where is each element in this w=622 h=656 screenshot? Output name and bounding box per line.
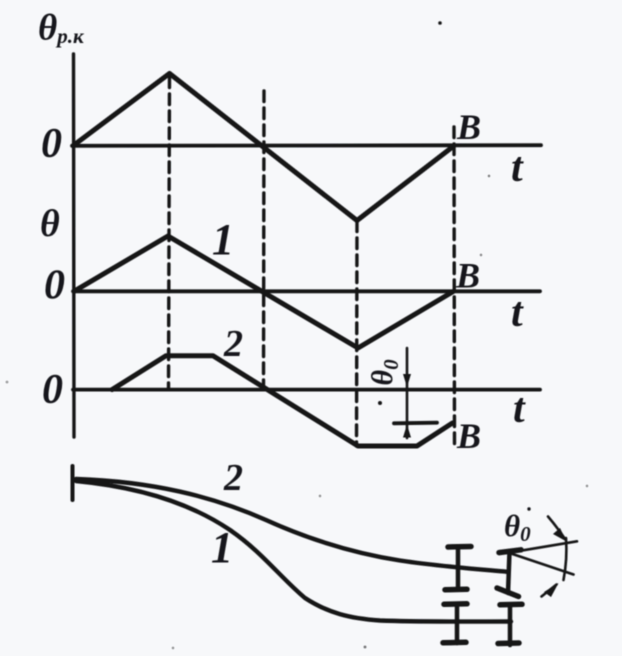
speck near plot1 t (488, 175, 490, 177)
svg-text:1: 1 (211, 523, 233, 572)
backlash fan line L2 (511, 554, 574, 575)
lower gear I-beam 2 top cap (500, 602, 522, 608)
bottom arrow tail (542, 585, 557, 597)
bottom curve 1 (lower) (76, 481, 511, 622)
svg-text:t: t (511, 290, 524, 336)
lower gear I-beam 2 bottom cap (498, 640, 519, 646)
backlash fan line L1 (511, 541, 577, 552)
lower gear I-beam 2 vertical (508, 605, 513, 645)
speck bottom middle (319, 495, 321, 497)
svg-text:1: 1 (212, 215, 234, 264)
svg-text:В: В (456, 107, 481, 147)
fan bottom arrowhead (544, 583, 559, 597)
upper gear I-beam 1 vertical (456, 547, 461, 590)
plot3 waveform curve 2 with backlash (112, 356, 453, 446)
upper gear I-beam 1 bottom cap (445, 587, 467, 593)
dashed line D1 (through peaks, x=169.5) (169, 77, 170, 389)
speck near plot2 B (480, 254, 482, 256)
lower gear I-beam 1 bottom cap (443, 640, 466, 646)
plot1 x-axis (72, 143, 541, 147)
dimension tick line at B level (394, 421, 437, 425)
svg-text:В: В (456, 416, 481, 456)
upper gear I-beam 2 bottom cap (tilted) (497, 588, 519, 597)
speck bottom left (172, 647, 174, 649)
upper gear I-beam 2 vertical (tilted) (508, 552, 510, 594)
svg-text:2: 2 (223, 323, 243, 365)
lower gear I-beam 1 top cap (444, 601, 467, 607)
speck near top (438, 21, 442, 25)
svg-text:0: 0 (42, 367, 63, 413)
plot1 waveform (73, 74, 454, 221)
svg-text:В: В (455, 256, 480, 296)
speck left edge plot3 (6, 381, 9, 384)
bottom start tick (71, 466, 75, 500)
svg-text:t: t (513, 386, 526, 432)
speck below plot3 axis (378, 401, 382, 405)
bottom curve 2 (upper) (76, 479, 507, 572)
upper gear I-beam 1 top cap (448, 544, 471, 550)
dashed line D3 (through minima, x=357) (355, 221, 359, 446)
dimension down arrowhead at axis (403, 374, 411, 387)
speck right of bottom start (586, 485, 588, 487)
svg-text:t: t (511, 145, 524, 191)
plot3 x-axis (73, 388, 540, 392)
plot2 waveform curve 1 (74, 236, 453, 348)
lower gear I-beam 1 vertical (455, 604, 460, 643)
svg-text:0: 0 (41, 121, 62, 167)
prime mark on bottom theta0 (527, 507, 530, 510)
svg-text:0: 0 (44, 263, 65, 309)
upper gear I-beam 2 top cap (499, 550, 521, 553)
svg-text:2: 2 (223, 457, 243, 499)
plot2 x-axis (73, 289, 540, 293)
top arrow tail (548, 517, 565, 540)
dimension up arrowhead at tick (403, 425, 411, 438)
backlash arc chord (564, 538, 567, 580)
y-axis (common vertical axis) (72, 54, 76, 437)
speck bottom right (364, 646, 367, 649)
dimension line for theta0 in plot3 (406, 348, 409, 438)
fan top arrowhead (553, 528, 567, 542)
dashed line D2 (x=264) (262, 91, 266, 389)
dashed line D4 (through B points, x=454) (452, 127, 456, 449)
svg-text:θ: θ (40, 203, 60, 245)
